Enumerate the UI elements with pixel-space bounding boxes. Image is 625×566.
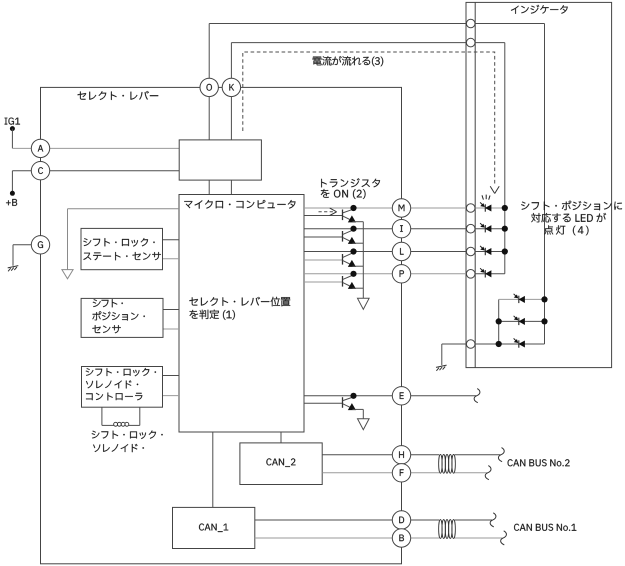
connector pin circle y=273.8 xyxy=(466,270,475,279)
wire CAN_2 to H xyxy=(322,454,401,456)
open arrow down (output) xyxy=(62,270,73,279)
node IG1 dot xyxy=(10,126,15,131)
LED D5 xyxy=(518,296,520,303)
interface box U2 xyxy=(179,140,261,180)
wire F out xyxy=(411,472,439,474)
wire O up and over to indicator pin xyxy=(208,24,210,88)
ground (indicator) xyxy=(436,365,447,367)
label: determine lever position xyxy=(189,297,290,307)
connector pin circle y=251.5 xyxy=(466,247,475,256)
label: shift (box2 l1) xyxy=(93,299,123,307)
terminal P xyxy=(392,265,410,283)
terminal C xyxy=(31,162,49,180)
label: select lever xyxy=(78,91,159,100)
transistor Q2 xyxy=(343,226,364,244)
dashed current path (3) xyxy=(243,52,495,184)
terminal H xyxy=(392,446,410,464)
wire base Q4 xyxy=(304,281,343,283)
terminal M xyxy=(392,199,410,217)
label: shift-lock (solenoid l1) xyxy=(92,431,163,440)
wire state sensor to micro xyxy=(163,239,180,241)
shift-lock state sensor box xyxy=(81,228,163,269)
node +B dot xyxy=(10,191,15,196)
label CAN_2 xyxy=(266,458,295,467)
wire indicator row L xyxy=(475,251,505,253)
indicator connector strip line xyxy=(474,2,476,367)
wire pin2 feed inside indicator xyxy=(475,42,505,44)
twisted pair CAN No.2 xyxy=(439,454,443,473)
label: corresponding LED l2 xyxy=(531,213,606,223)
open arrow down (emitter rail) xyxy=(358,298,370,309)
wire micro to CAN_2 xyxy=(280,432,282,443)
terminal F xyxy=(392,464,410,482)
CAN_1 box xyxy=(173,507,255,548)
net IG1 xyxy=(5,118,20,125)
wire base Q2 xyxy=(304,236,343,238)
terminal L xyxy=(392,242,410,260)
indicator enclosure box xyxy=(466,2,612,367)
label: transistor xyxy=(321,178,380,187)
dashed arrowhead (current into LED) xyxy=(490,186,495,193)
wire row P collector to terminal xyxy=(304,273,402,275)
label: position (box2 l2) xyxy=(92,311,144,320)
label: turns ON (2) xyxy=(321,189,366,199)
wire common emitter rail xyxy=(362,222,364,299)
shift position sensor box xyxy=(81,298,163,337)
wire E out to break xyxy=(411,395,476,397)
LED matrix left rail xyxy=(498,299,500,344)
connector pin circle y=42.6 xyxy=(466,38,475,47)
wire solenoid controller to micro xyxy=(163,375,180,377)
wire row L collector to terminal xyxy=(304,251,402,253)
label CAN_1 xyxy=(199,524,228,533)
wire +B to C xyxy=(12,170,179,172)
wire base Q1 xyxy=(304,215,343,217)
terminal K xyxy=(222,78,240,96)
label: (1) xyxy=(190,310,235,320)
op-amp/microcomputer box U1 xyxy=(179,195,304,433)
transistor Q1 xyxy=(343,205,364,222)
break symbol (F wire) xyxy=(485,466,491,480)
label: shift-lock (box1 l1) xyxy=(83,238,154,247)
LED matrix junction dots xyxy=(541,296,547,302)
terminal D xyxy=(392,511,410,529)
LED D3 (L row) xyxy=(484,248,486,255)
wire base Q3 xyxy=(304,259,343,261)
transistor Q5 xyxy=(343,393,364,410)
break symbol (D wire) xyxy=(490,513,496,527)
LED matrix row wires xyxy=(499,298,545,300)
label: lights (4) l3 xyxy=(544,225,588,235)
wire indicator row P xyxy=(475,273,505,275)
terminal B xyxy=(392,529,410,547)
wire controller to solenoid xyxy=(101,407,103,425)
wire base Q5 xyxy=(304,402,343,404)
connector pin circle y=208 xyxy=(466,204,475,213)
shift-lock solenoid controller box xyxy=(82,367,163,408)
transistor Q3 xyxy=(343,248,364,266)
label: sensor (box2 l3) xyxy=(92,325,120,333)
net +B xyxy=(6,199,17,206)
wire Q5 emitter down xyxy=(362,409,364,418)
LED D7 xyxy=(518,340,520,347)
connector pin circle y=228.7 xyxy=(466,224,475,233)
wire D out xyxy=(411,519,439,521)
wire row I collector to terminal xyxy=(304,228,402,230)
wire micro to CAN_1 xyxy=(212,432,214,507)
LED D1 (M row) xyxy=(484,204,486,211)
wire position sensor to micro xyxy=(163,309,179,311)
open arrow down (Q5 emitter) xyxy=(358,419,370,430)
terminal O xyxy=(200,78,218,96)
break symbol (H wire) xyxy=(498,448,504,462)
dashed arrow (transistor ON) xyxy=(319,211,334,213)
label: solenoid (box3 l2) xyxy=(86,380,138,388)
wire K up and over to indicator pin xyxy=(230,43,232,88)
break symbol (B wire) xyxy=(501,531,507,545)
label CAN BUS No.1 xyxy=(514,524,576,531)
wire indicator row M xyxy=(475,207,505,209)
wire: ECU enclosure box xyxy=(41,87,402,563)
label: shift position (4) l1 xyxy=(521,201,622,211)
label CAN BUS No.2 xyxy=(508,459,570,466)
CAN_2 box xyxy=(240,443,322,485)
label: shift-lock (box3 l1) xyxy=(86,368,156,376)
wire terminal L to indicator xyxy=(411,251,467,253)
wire CAN_1 to B xyxy=(255,537,402,539)
wire pin1 feed inside indicator xyxy=(475,23,544,25)
wire H out xyxy=(411,454,439,456)
connector pin circle y=344 xyxy=(466,340,475,349)
ground (left, for G) xyxy=(8,266,19,268)
LED D2 (I row) xyxy=(484,225,486,232)
wire IG1 to A xyxy=(11,129,13,149)
wire terminal M to indicator xyxy=(411,207,467,209)
wire row M collector to terminal xyxy=(304,207,402,209)
transistor Q4 xyxy=(343,271,364,289)
label: solenoid (solenoid l2) xyxy=(93,444,144,452)
wire indicator ground xyxy=(442,343,467,345)
label: microcomputer xyxy=(184,200,295,209)
wire CAN_1 to D xyxy=(255,519,402,521)
terminal E xyxy=(392,387,410,405)
label: controller (box3 l3) xyxy=(86,393,142,401)
terminal G xyxy=(31,236,49,254)
wire row E collector to terminal xyxy=(304,395,402,397)
terminal I xyxy=(392,220,410,238)
solenoid coil L1 xyxy=(114,422,118,426)
wire terminal P to indicator xyxy=(411,273,467,275)
connector pin circle y=23.5 xyxy=(466,19,475,28)
wire G to ground xyxy=(13,244,40,246)
wire O down to interface box xyxy=(208,97,210,140)
label: current flows (3) xyxy=(313,56,384,66)
wire indicator row I xyxy=(475,228,505,230)
LED D4 (P row) xyxy=(484,270,486,277)
label: state sensor (box1 l2) xyxy=(83,252,160,260)
label: indicator xyxy=(511,5,568,14)
wire terminal I to indicator xyxy=(411,228,467,230)
wire interface to microcomputer xyxy=(208,180,210,194)
wire CAN_2 to F xyxy=(322,472,401,474)
wire B out xyxy=(411,537,439,539)
wire micro output with down arrow xyxy=(68,208,180,210)
wire K down to interface box xyxy=(230,97,232,140)
LED D6 xyxy=(518,318,520,325)
twisted pair CAN No.1 xyxy=(439,520,443,539)
break symbol (E wire) xyxy=(474,389,480,403)
terminal A xyxy=(31,139,49,157)
node dots on pin2 rail xyxy=(502,205,508,211)
